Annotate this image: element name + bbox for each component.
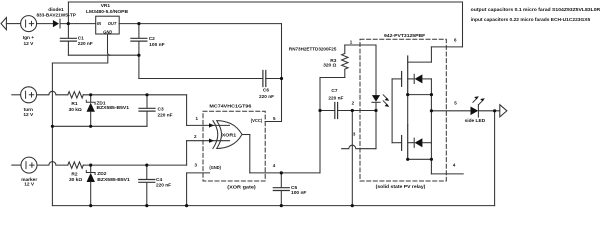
svg-text:100 nF: 100 nF xyxy=(149,42,164,48)
opto LED lead down to stub xyxy=(375,111,377,149)
svg-text:220 nF: 220 nF xyxy=(158,112,173,118)
VR1 GND pin wire xyxy=(107,34,109,52)
wire C6 to 5V vertical xyxy=(266,78,282,80)
wire row3 with hop over GND column xyxy=(37,162,68,166)
side LED emission arrows xyxy=(473,98,483,104)
capacitor C7 right wire to LED lead xyxy=(338,110,376,112)
XOR gate input arc xyxy=(213,121,218,149)
wire relay pin5 xyxy=(431,110,470,112)
svg-text:220 nF: 220 nF xyxy=(78,41,93,47)
wire top rail down to relay pin 6 xyxy=(462,2,464,47)
node V+ top rail vertical from diode junction xyxy=(67,2,69,24)
M2 gate plate xyxy=(401,136,403,151)
wire M1 drain riser to pin6 xyxy=(430,47,432,62)
relay dashed box 942-PVT3125PBF xyxy=(360,39,446,181)
capacitor C7 plates xyxy=(335,103,338,119)
XOR dashed box MC74VHC1GT96 xyxy=(203,111,265,181)
wire XOR pin3 stub xyxy=(187,172,210,174)
wire LED cathode stub with hop xyxy=(342,145,376,149)
zener ZD1 triangle xyxy=(87,103,95,112)
capacitor C4 220nF top wire xyxy=(146,165,148,179)
svg-text:12 V: 12 V xyxy=(23,112,34,118)
XOR gate XOR1 body xyxy=(217,121,242,149)
zener ZD1 bar xyxy=(86,100,95,104)
zener ZD2 bar xyxy=(86,171,95,175)
output port triangle side LED xyxy=(500,105,507,117)
regulator VR1 LM3480 box xyxy=(96,16,120,34)
junction dot M2 bottom right xyxy=(430,158,433,161)
svg-text:220 nF: 220 nF xyxy=(156,182,171,188)
capacitor C5 bottom wire xyxy=(280,191,282,205)
svg-text:GND: GND xyxy=(103,29,112,34)
junction dot rail C4 xyxy=(145,204,148,207)
junction dot C3 top xyxy=(145,93,148,96)
wire GND run to C6 xyxy=(139,78,263,80)
wire port to source V1 xyxy=(6,23,20,25)
junction dot M2 bottom left xyxy=(406,158,409,161)
svg-text:12 V: 12 V xyxy=(24,182,35,188)
svg-text:R2: R2 xyxy=(71,172,77,178)
capacitor C3 bottom wire xyxy=(146,112,148,127)
V2 polarity marks xyxy=(26,91,34,98)
junction dot diode1 cathode node xyxy=(67,22,70,25)
svg-text:input capacitors 0.22 micro fa: input capacitors 0.22 micro farads ECH-U… xyxy=(471,17,591,23)
M1 body diode branch wire xyxy=(408,78,415,80)
capacitor C1 220nF branch wire upper xyxy=(67,24,69,38)
wire XOR pin1 drop xyxy=(186,95,188,126)
wire M1 gate lead xyxy=(392,78,402,80)
wire side LED to output port xyxy=(478,110,499,112)
svg-text:(solid state PV relay): (solid state PV relay) xyxy=(376,184,426,190)
svg-text:(GND): (GND) xyxy=(209,165,221,171)
opto LED cathode lead xyxy=(375,102,377,110)
wire diode1 to VR1 IN xyxy=(60,23,96,25)
XOR input arrow pin1 xyxy=(209,123,214,127)
junction dot pin5 node xyxy=(430,109,433,112)
wire XOR pin3 GND riser xyxy=(186,173,188,206)
svg-text:ZD2: ZD2 xyxy=(97,171,106,177)
wire row2 turn port stub xyxy=(12,94,21,96)
wire relay pin4 stub xyxy=(431,173,463,175)
svg-text:12 V: 12 V xyxy=(23,41,34,47)
opto LED emission arrows xyxy=(383,95,387,105)
node 5V vertical xyxy=(281,24,283,122)
resistor R1 30k zigzag xyxy=(68,92,84,98)
M2 channel plate xyxy=(407,125,409,160)
svg-text:C6: C6 xyxy=(263,88,269,94)
wire mid node left vertical xyxy=(407,95,409,125)
svg-text:833-BAV21WS-TP: 833-BAV21WS-TP xyxy=(36,12,76,18)
capacitor C2 100nF upper wire xyxy=(138,24,140,38)
wire V1 to diode1 xyxy=(37,23,53,25)
svg-text:LM3480-5.0/NOPB: LM3480-5.0/NOPB xyxy=(86,9,129,15)
svg-text:RN73H2ETTD3200F25: RN73H2ETTD3200F25 xyxy=(289,46,337,52)
svg-text:C3: C3 xyxy=(158,107,164,113)
wire bottom ground rail xyxy=(52,205,494,207)
capacitor C4 bottom wire xyxy=(146,183,148,206)
wire GND step down xyxy=(52,55,107,63)
svg-text:30 kΩ: 30 kΩ xyxy=(69,107,82,113)
resistor R3 320 ohm vertical zigzag xyxy=(342,45,348,78)
capacitor C1 plates xyxy=(60,38,76,41)
M1 channel plate xyxy=(407,56,409,95)
wire relay input riser xyxy=(319,78,321,173)
zener ZD1 top wire xyxy=(90,95,92,102)
wire XOR output down xyxy=(249,135,251,173)
M1 body diode triangle xyxy=(415,74,423,83)
wire GND horizontal run y55 xyxy=(68,54,139,56)
junction dot C5 top xyxy=(280,171,283,174)
capacitor C2 plates xyxy=(131,38,147,41)
M1 body diode bar xyxy=(413,74,415,83)
wire row2 ground rail xyxy=(52,125,147,127)
svg-text:diode1: diode1 xyxy=(48,7,64,13)
svg-text:OUT: OUT xyxy=(108,21,117,26)
svg-text:C7: C7 xyxy=(331,88,337,94)
junction dot rail C5 xyxy=(280,204,283,207)
wire MOSFET gate rail xyxy=(391,79,393,143)
svg-text:100 nF: 100 nF xyxy=(291,190,306,196)
junction dot C7 right xyxy=(351,109,354,112)
voltage source V3 marker 12V xyxy=(21,157,37,173)
svg-text:C2: C2 xyxy=(149,36,155,42)
junction dot rail2 left xyxy=(51,125,54,128)
VR1 GND merge curve xyxy=(108,52,111,55)
wire R2 to XOR pin2 corner xyxy=(83,164,186,166)
capacitor C2 lower wire through GND dot xyxy=(138,42,140,79)
diode1 833-BAV21WS-TP xyxy=(53,20,59,27)
resistor R2 30k zigzag xyxy=(68,162,84,168)
wire pin1 down to opto LED xyxy=(375,45,377,95)
wire M1 source lead xyxy=(408,94,432,96)
junction dot ZD1 bottom xyxy=(89,125,92,128)
junction dot M1 source right xyxy=(430,93,433,96)
voltage source V1 Ign 12V xyxy=(21,16,37,32)
M2 gate lead xyxy=(392,142,402,144)
wire XOR output lead xyxy=(242,134,250,136)
side LED cathode bar xyxy=(477,105,479,118)
svg-text:220 nF: 220 nF xyxy=(259,94,274,100)
capacitor C3 220nF top wire xyxy=(146,95,148,108)
junction dot M1 source left xyxy=(406,93,409,96)
svg-text:220 nF: 220 nF xyxy=(328,96,343,102)
wire top rail xyxy=(68,1,462,3)
wire GND descend left column xyxy=(51,63,53,206)
zener ZD2 triangle xyxy=(87,173,95,182)
wire row3 marker port stub xyxy=(12,164,21,166)
M2 body diode wire to right branch xyxy=(422,142,431,144)
svg-text:XOR1: XOR1 xyxy=(222,132,237,138)
zener ZD2 bottom wire xyxy=(90,182,92,206)
junction dot ZD2 top xyxy=(89,164,92,167)
wire mid node right vertical xyxy=(430,95,432,160)
capacitor C4 plates xyxy=(139,180,155,183)
capacitor C5 100nF top wire xyxy=(280,173,282,188)
junction dot C7 left xyxy=(318,109,321,112)
wire XOR pin2 riser xyxy=(186,141,188,165)
wire XOR pin1 into gate xyxy=(187,124,230,126)
wire riser to R3 bottom xyxy=(320,77,345,79)
opto LED triangle xyxy=(372,95,380,102)
junction dot C2 top xyxy=(137,22,140,25)
wire XOR pin2 into gate xyxy=(187,140,230,142)
svg-text:(XOR gate): (XOR gate) xyxy=(227,185,256,191)
wire VR1 OUT to 5V corner xyxy=(119,23,281,25)
junction dot rail pin3 xyxy=(185,204,188,207)
svg-text:30 kΩ: 30 kΩ xyxy=(69,177,82,183)
junction dot GND y55 xyxy=(137,54,140,57)
wire R1 to XOR pin1 corner xyxy=(83,94,186,96)
M2 body diode bar xyxy=(413,138,415,147)
wire XOR pin4 run to relay riser xyxy=(250,172,320,174)
wire XOR pin5 VCC stub xyxy=(265,121,281,123)
V1 polarity marks xyxy=(26,20,34,27)
wire relay pin4 drop xyxy=(430,159,432,174)
capacitor C5 plates xyxy=(273,188,289,191)
svg-text:R1: R1 xyxy=(71,101,77,107)
junction dot side LED branch xyxy=(493,109,496,112)
svg-text:(VCC): (VCC) xyxy=(251,118,263,124)
zener ZD2 top wire xyxy=(90,165,92,172)
svg-text:C4: C4 xyxy=(156,177,162,183)
M2 body diode branch wire xyxy=(408,142,415,144)
svg-text:942-PVT3125PBF: 942-PVT3125PBF xyxy=(384,33,425,39)
M2 body diode triangle xyxy=(415,138,423,147)
svg-text:output capacitors 0.1 micro fa: output capacitors 0.1 micro farad S104Z9… xyxy=(471,7,600,13)
junction dot C4 top xyxy=(145,164,148,167)
junction dot rail ZD2 xyxy=(89,204,92,207)
junction dot rail relay GND xyxy=(351,204,354,207)
wire output return drop xyxy=(494,111,496,206)
side LED triangle xyxy=(471,107,479,116)
wire relay pin1 xyxy=(345,44,376,46)
wire relay GND drop xyxy=(351,111,353,206)
zener ZD1 bottom wire xyxy=(90,112,92,127)
svg-text:BZX585-B5V1: BZX585-B5V1 xyxy=(97,177,130,183)
junction dot ZD1 top xyxy=(89,93,92,96)
svg-text:C5: C5 xyxy=(291,185,297,191)
wire M2 bottom lead xyxy=(408,158,432,160)
wire relay pin6 xyxy=(431,46,462,48)
capacitor C7 220nF left wire xyxy=(320,110,335,112)
svg-text:MC74VHC1GT96: MC74VHC1GT96 xyxy=(209,103,251,109)
M1 body diode wire to right branch xyxy=(422,78,431,80)
capacitor C1 branch wire lower xyxy=(67,42,69,55)
voltage source V2 turn 12V xyxy=(21,87,37,103)
svg-text:VR1: VR1 xyxy=(101,3,111,9)
input port Ign (triangle connector) xyxy=(1,18,6,30)
wire M1 drain lead xyxy=(408,61,432,63)
wire row2 with hop over GND column xyxy=(37,91,68,95)
capacitor C6 220nF plates xyxy=(263,71,266,87)
svg-text:C1: C1 xyxy=(78,35,84,41)
svg-text:BZX585-B5V1: BZX585-B5V1 xyxy=(97,105,130,111)
svg-text:320 Ω: 320 Ω xyxy=(323,63,336,69)
M1 right branch down xyxy=(430,79,432,95)
svg-text:side LED: side LED xyxy=(465,118,486,124)
svg-text:Ign +: Ign + xyxy=(23,35,35,41)
junction dot opto LED node xyxy=(374,109,377,112)
V3 polarity marks xyxy=(26,162,34,169)
opto LED cathode bar xyxy=(372,101,380,103)
junction dot 5V at C6 xyxy=(280,77,283,80)
XOR input arrow pin2 xyxy=(209,139,214,143)
capacitor C3 plates xyxy=(139,108,155,111)
M1 gate plate xyxy=(401,72,403,87)
